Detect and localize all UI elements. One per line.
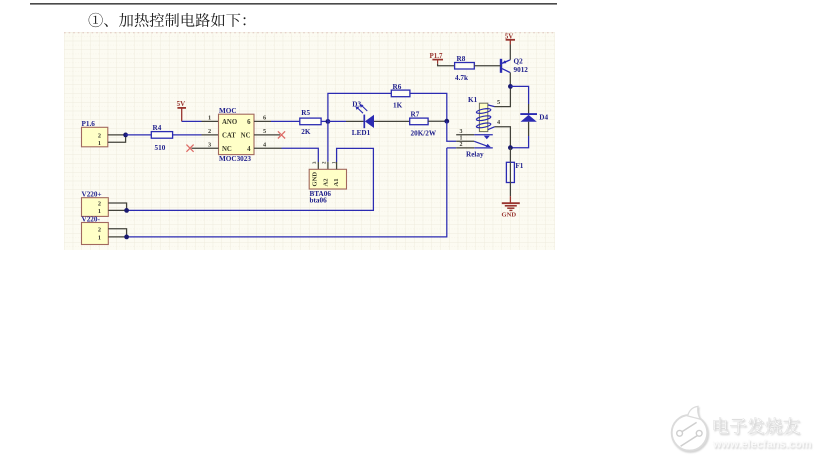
svg-text:K1: K1 <box>468 96 478 104</box>
svg-text:P1.6: P1.6 <box>82 120 96 128</box>
svg-text:5: 5 <box>263 128 266 135</box>
wire R7 to node B <box>428 120 447 122</box>
watermark CJK text <box>714 418 800 434</box>
contact pin3 <box>456 134 474 136</box>
wire R5 to node A <box>321 120 328 122</box>
node C <box>508 84 513 89</box>
wire U pin6 stub <box>254 120 271 122</box>
svg-text:4.7k: 4.7k <box>455 74 468 82</box>
node B <box>444 119 449 124</box>
wire node A up to R6 <box>328 93 391 121</box>
watermark url text <box>712 439 812 451</box>
node junction P1.6 <box>123 133 128 138</box>
wire node A down to triac A2 <box>327 121 329 161</box>
node V220+ <box>124 208 129 213</box>
svg-text:www.elecfans.com: www.elecfans.com <box>712 439 812 451</box>
svg-text:Relay: Relay <box>466 150 484 158</box>
svg-text:6: 6 <box>247 119 251 126</box>
svg-text:R5: R5 <box>301 109 310 117</box>
wire K1 pin5 <box>488 105 495 107</box>
svg-text:2: 2 <box>98 226 101 233</box>
svg-text:2: 2 <box>98 133 101 140</box>
svg-text:NC: NC <box>241 133 251 140</box>
svg-text:NC: NC <box>222 146 232 153</box>
wire node A to LED <box>328 120 346 122</box>
svg-text:1: 1 <box>98 234 101 241</box>
fuse F1 <box>509 148 511 163</box>
wire U pin5 stub <box>254 134 280 136</box>
node D <box>508 145 513 150</box>
wire K1 pin4 <box>488 127 495 130</box>
svg-text:MOC3023: MOC3023 <box>219 155 251 163</box>
svg-text:CAT: CAT <box>222 133 236 140</box>
wire R8 to Q2 base <box>474 65 501 67</box>
wire R6 to node B <box>410 93 447 121</box>
svg-text:F1: F1 <box>515 162 523 170</box>
svg-text:1: 1 <box>98 140 101 147</box>
svg-text:4: 4 <box>247 146 251 153</box>
top rule <box>30 3 557 5</box>
svg-text:bta06: bta06 <box>310 196 328 204</box>
title text <box>89 13 103 27</box>
wire 5V to U pin1 <box>182 120 202 122</box>
svg-text:D4: D4 <box>539 114 548 122</box>
svg-text:2K: 2K <box>301 128 311 136</box>
wire R4 to U pin2 <box>173 134 202 136</box>
watermark logo <box>672 406 708 450</box>
svg-text:LED1: LED1 <box>352 129 371 137</box>
wire node B to relay common pin1 <box>447 121 456 141</box>
svg-text:R7: R7 <box>411 111 420 119</box>
wire to R4 <box>126 134 152 136</box>
svg-text:A1: A1 <box>333 178 340 186</box>
svg-text:1: 1 <box>208 115 211 122</box>
wire P1.6 pins <box>108 134 126 136</box>
no-connect X pin3 <box>186 145 193 152</box>
wire U pin4 to triac gate <box>254 147 282 149</box>
triac D BTA06 <box>309 169 346 189</box>
svg-text:5: 5 <box>497 99 500 106</box>
svg-text:GND: GND <box>312 172 319 187</box>
wire P1.7 to R8 <box>438 64 455 66</box>
movable arm <box>474 141 488 146</box>
svg-text:510: 510 <box>155 144 166 152</box>
resistor R5 <box>271 120 300 122</box>
svg-text:2: 2 <box>208 128 211 135</box>
transistor Q2 9012 <box>500 59 502 73</box>
diode D4 <box>510 86 528 104</box>
wire pin2 riser down to V220- net <box>127 148 447 237</box>
svg-text:9012: 9012 <box>514 66 529 74</box>
svg-text:3: 3 <box>460 129 463 135</box>
svg-text:2: 2 <box>98 201 101 208</box>
svg-text:1: 1 <box>98 208 101 215</box>
svg-text:A2: A2 <box>323 178 330 187</box>
svg-text:R8: R8 <box>457 55 466 63</box>
svg-text:GND: GND <box>502 212 517 219</box>
ground GND <box>509 183 511 197</box>
wire Q2 collector <box>509 73 511 87</box>
wire LED to R7 <box>374 120 410 122</box>
schematic sheet background <box>64 32 555 250</box>
svg-text:6: 6 <box>263 115 266 122</box>
no-connect X pin5 <box>278 131 285 138</box>
svg-text:1K: 1K <box>393 102 403 110</box>
svg-text:ANO: ANO <box>222 119 237 126</box>
contact pin1 <box>456 140 474 142</box>
svg-text:Q2: Q2 <box>514 58 524 66</box>
wire U pin3 stub <box>192 147 219 149</box>
wire 5V to Q2 emitter <box>509 45 511 60</box>
node A <box>326 119 331 124</box>
sheet top dashed red border <box>64 32 555 34</box>
svg-text:20K/2W: 20K/2W <box>411 129 437 137</box>
node V220- <box>124 235 129 240</box>
wire triac A1 loop to V220+ <box>336 162 338 169</box>
contact pin2 <box>447 147 456 149</box>
svg-text:3: 3 <box>208 141 211 148</box>
